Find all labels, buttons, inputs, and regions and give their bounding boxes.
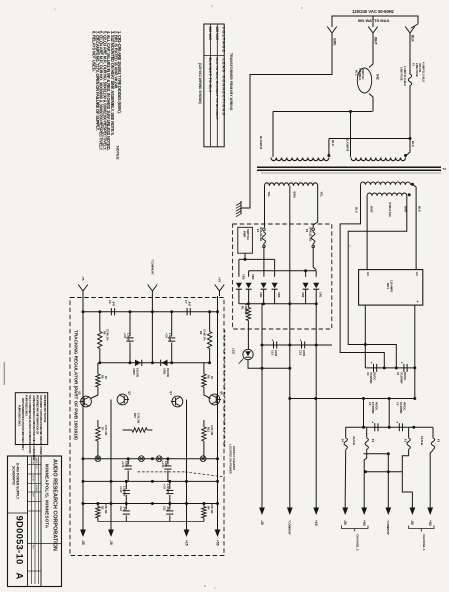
capacitor C12 (125, 504, 127, 510)
svg-text:CR2: CR2 (301, 292, 305, 298)
svg-text:40VDC: 40VDC (375, 402, 379, 410)
svg-text:GRN: GRN (333, 38, 337, 46)
wire primary top rail (273, 111, 372, 113)
wire diode cathode (274, 289, 276, 304)
svg-text:Q4: Q4 (169, 391, 173, 395)
wire AC bracket (332, 16, 418, 24)
wire output ch2 plus (364, 450, 367, 499)
wire right bus (217, 312, 219, 524)
transistor Q4 (172, 396, 183, 407)
transformer T1 trifilar winding row 1 (361, 182, 411, 185)
svg-text:"COMMON": "COMMON" (151, 259, 155, 276)
resistor R8 (99, 312, 101, 332)
svg-text:A: A (15, 573, 26, 580)
svg-text:3/4A,SL-BL: 3/4A,SL-BL (259, 227, 263, 242)
svg-text:CR11: CR11 (162, 368, 166, 375)
wire diode cathode (263, 289, 265, 304)
svg-text:TRANSFORMER PRIMARY WIRING: TRANSFORMER PRIMARY WIRING (229, 53, 233, 111)
diode CR1 (313, 283, 319, 289)
junction (151, 480, 154, 483)
terminal -75 in (78, 285, 83, 292)
LED DS1 (243, 349, 253, 359)
svg-text:4 AMP SLO-BLO: 4 AMP SLO-BLO (421, 62, 425, 82)
svg-text:CH. BY: CH. BY (32, 475, 34, 482)
title block (8, 456, 62, 587)
svg-text:R6: R6 (206, 375, 210, 379)
diode CR3 (272, 283, 278, 289)
svg-text:9D0053-10: 9D0053-10 (15, 516, 26, 565)
svg-text:27.4K 1%: 27.4K 1% (106, 329, 110, 341)
svg-text:PURPOSES ONLY.: PURPOSES ONLY. (18, 405, 22, 427)
resistor R9 (209, 312, 211, 332)
svg-text:.047: .047 (187, 301, 191, 307)
svg-text:BR1: BR1 (386, 283, 390, 289)
svg-text:.047: .047 (166, 506, 170, 512)
svg-text:.047: .047 (112, 301, 116, 307)
svg-text:SUPPLY CHASSIS: SUPPLY CHASSIS (232, 446, 236, 470)
terminal +75 in (215, 285, 220, 292)
svg-text:+15: +15 (314, 520, 318, 526)
terminal +55 out (217, 504, 219, 530)
capacitor C2 (373, 364, 375, 372)
svg-text:THIS PRINT CONTAINS PATENTED A: THIS PRINT CONTAINS PATENTED AND/OR OTHE… (39, 395, 43, 455)
transformer T1 primary winding 1 (271, 158, 329, 161)
svg-text:-50: -50 (410, 520, 414, 525)
wire bottom tie rail (98, 521, 204, 523)
svg-text:+C14: +C14 (161, 461, 165, 468)
chassis ground (240, 201, 242, 214)
terminal -50 channel 2 (344, 499, 346, 508)
lamp DS4 (156, 456, 162, 462)
svg-text:(120 VAC WIRING SHOWN): (120 VAC WIRING SHOWN) (198, 63, 202, 104)
junction (129, 361, 132, 364)
capacitor C7 (186, 308, 188, 315)
svg-text:BLU TO BLK, BLK/WHT TO BLU/WHT: BLU TO BLK, BLK/WHT TO BLU/WHT (215, 58, 219, 120)
svg-text:Q5: Q5 (78, 391, 82, 395)
junction (288, 302, 291, 305)
svg-text:LED: LED (232, 348, 236, 355)
wire diode bottom rail (239, 303, 316, 305)
svg-text:PURPOSES ONLY.: PURPOSES ONLY. (25, 395, 29, 417)
fuse F6 (312, 228, 315, 231)
svg-text:CHANNEL 1: CHANNEL 1 (422, 534, 426, 551)
svg-text:1.0/100V: 1.0/100V (166, 484, 170, 495)
wire regulator mid rail (100, 362, 210, 364)
svg-text:PROPRIETARY NOTICE: PROPRIETARY NOTICE (43, 395, 47, 423)
resistor R5 (97, 363, 99, 374)
svg-text:LEAD CONNECTIONS: LEAD CONNECTIONS (222, 59, 226, 117)
svg-text:-15: -15 (260, 520, 264, 525)
svg-text:S42: S42 (376, 74, 380, 80)
terminal +15 (315, 499, 317, 508)
svg-text:50VDC: 50VDC (403, 372, 407, 380)
junction (364, 470, 367, 473)
junction (315, 344, 318, 347)
fuse F4 output (345, 427, 347, 437)
wire output ch1 plus (430, 450, 433, 499)
svg-text:110 AMP1: 110 AMP1 (390, 280, 394, 293)
box power switch (238, 227, 253, 253)
svg-text:+15: +15 (185, 540, 189, 546)
junction (151, 502, 154, 505)
svg-text:BLU: BLU (331, 140, 335, 146)
wire diode cathode (238, 289, 240, 304)
svg-text:70,000MF: 70,000MF (369, 372, 373, 384)
zener CR11 (162, 360, 168, 366)
junction (388, 397, 391, 400)
svg-text:Q6: Q6 (220, 391, 224, 395)
capacitor C10 (125, 481, 127, 489)
svg-text:DR. BY: DR. BY (32, 458, 34, 465)
svg-text:4A,S.B.: 4A,S.B. (352, 436, 356, 446)
resistor R1 (247, 304, 249, 308)
wire diode rail 1 (239, 258, 275, 260)
svg-text:120 VAC: 120 VAC (215, 27, 219, 41)
svg-text:CR5: CR5 (251, 274, 255, 280)
svg-text:15V,1W: 15V,1W (166, 368, 170, 378)
svg-text:+: + (396, 420, 398, 424)
svg-text:-15: -15 (109, 540, 113, 545)
svg-text:C4: C4 (396, 402, 400, 406)
svg-text:+: + (417, 300, 419, 304)
dashed callout from rectifier box (224, 330, 226, 447)
zener CR10 (135, 360, 141, 366)
svg-text:BLK/WHT TO BLU: BLK/WHT TO BLU (208, 58, 212, 93)
wire jog output ch1 (402, 450, 412, 499)
svg-text:CR4: CR4 (259, 292, 263, 298)
svg-text:+75: +75 (218, 277, 222, 283)
svg-text:1K: 1K (104, 376, 108, 379)
wire power switch stub (244, 253, 246, 259)
svg-text:C15: C15 (271, 350, 275, 356)
junction phase dot (411, 183, 414, 186)
svg-text:CHANNEL 2: CHANNEL 2 (355, 534, 359, 551)
junction (216, 502, 219, 505)
svg-text:C3: C3 (368, 402, 372, 406)
svg-text:R5: R5 (100, 375, 104, 379)
svg-text:AUDIO RESEARCH CORPORATION: AUDIO RESEARCH CORPORATION (52, 459, 58, 551)
junction (404, 154, 407, 157)
svg-text:Q3: Q3 (128, 391, 132, 395)
svg-text:NOTES:: NOTES: (116, 146, 120, 160)
junction (388, 426, 391, 429)
wire cap rail 1 (365, 367, 415, 369)
svg-text:F1: F1 (403, 439, 407, 443)
transistor Q6 (209, 394, 220, 405)
svg-text:TRACKING REGULATOR (PART OF PW: TRACKING REGULATOR (PART OF PWB 1901616) (74, 330, 79, 440)
capacitor C4 (398, 423, 400, 431)
svg-text:C12: C12 (119, 506, 123, 511)
wire GRN to chassis ground (241, 33, 332, 208)
svg-text:+: + (272, 339, 274, 343)
junction (98, 361, 101, 364)
svg-text:C11: C11 (163, 506, 167, 511)
junction (383, 366, 386, 369)
transformer T1 trifilar winding row 2 (367, 193, 407, 196)
svg-text:120/240 VAC 50-60Hz: 120/240 VAC 50-60Hz (352, 9, 394, 14)
wire BRN center tap (289, 186, 291, 499)
transistor Q5 (81, 396, 92, 407)
wire YEL right lead (313, 186, 318, 228)
wire BLK/WHT lead (350, 112, 352, 158)
junction (261, 367, 264, 370)
terminal +15 out (186, 504, 188, 530)
svg-text:SCHEMATIC: SCHEMATIC (12, 466, 16, 486)
wire YEL left lead (264, 186, 266, 228)
terminal -15 (261, 499, 263, 508)
svg-text:15V,1W: 15V,1W (136, 368, 140, 378)
wire diode cathode (315, 289, 317, 304)
svg-text:BLK: BLK (417, 206, 421, 213)
resistor R6 (203, 363, 205, 374)
svg-text:CR3: CR3 (277, 292, 281, 298)
svg-text:BLK/WHT: BLK/WHT (346, 138, 350, 152)
bridge rectifier BR1 (359, 270, 423, 306)
wire BR1 plus output (414, 305, 416, 398)
fuse F2 output (432, 427, 434, 437)
svg-text:1.5/16V: 1.5/16V (126, 333, 130, 342)
wire +15 bus (315, 304, 317, 499)
svg-text:47K 1W: 47K 1W (210, 504, 214, 514)
capacitor C13 (127, 459, 129, 465)
resistor R7 (97, 420, 99, 427)
svg-text:C7: C7 (184, 300, 188, 304)
junction (216, 480, 219, 483)
capacitor C14 (167, 459, 169, 465)
lamp DS3 (139, 456, 145, 462)
junction (82, 502, 85, 505)
capacitor C8 (129, 312, 131, 337)
svg-text:R9: R9 (199, 331, 203, 335)
capacitor C15 (273, 341, 275, 348)
terminal -15 out (110, 504, 112, 530)
junction (349, 110, 352, 113)
svg-text:.047: .047 (123, 506, 127, 512)
svg-text:+: + (401, 361, 403, 365)
wire lamp rail (83, 458, 218, 460)
svg-text:40VDC: 40VDC (402, 402, 406, 410)
svg-text:T1: T1 (443, 167, 447, 171)
junction (395, 366, 398, 369)
junction (409, 137, 412, 140)
svg-text:WATSON/IDENTIFICATION PURPOSES: WATSON/IDENTIFICATION PURPOSES ONLY. (21, 398, 25, 451)
wire left bus (82, 312, 84, 524)
svg-text:1.0/100V: 1.0/100V (123, 486, 127, 497)
capacitor C16 (301, 341, 303, 348)
wire output ch2 minus (344, 450, 347, 499)
resistor R10 (132, 428, 147, 432)
svg-text:2.7K,1W: 2.7K,1W (136, 413, 140, 424)
junction (110, 502, 113, 505)
diode CR2 (303, 283, 309, 289)
svg-text:VOLTAGE: VOLTAGE (222, 27, 226, 54)
svg-text:C6: C6 (108, 300, 112, 304)
svg-text:CR6: CR6 (241, 274, 245, 280)
junction (288, 344, 291, 347)
thermal switch S42 (357, 68, 371, 93)
fuse F4 (263, 228, 266, 231)
svg-text:+50: +50 (428, 520, 432, 526)
wire diode rail 2 (249, 270, 317, 272)
junction (413, 366, 416, 369)
svg-text:1.5/16V: 1.5/16V (168, 333, 172, 342)
wire cap rail 2 (346, 426, 433, 428)
capacitor C1 (403, 364, 405, 372)
lamp DS2 (95, 456, 101, 462)
dashed box tracking regulator (70, 298, 224, 556)
terminal COMMON right (387, 499, 389, 508)
svg-text:MINNEAPOLIS, MINNESOTA: MINNEAPOLIS, MINNESOTA (45, 464, 50, 528)
svg-text:"COMMON": "COMMON" (386, 520, 390, 536)
terminal COMMON in (148, 285, 153, 292)
wire diode cathode (248, 289, 250, 304)
diode CR6 (236, 283, 242, 289)
transformer T1 secondary winding left (265, 183, 318, 186)
wire WHT lead down (369, 33, 373, 68)
svg-text:CR10: CR10 (132, 368, 136, 375)
junction (151, 457, 154, 460)
svg-text:SWITCH: SWITCH (361, 69, 365, 79)
terminal -55 out (82, 504, 84, 530)
wire Q4 emitter bus (186, 400, 188, 525)
svg-text:R1: R1 (240, 306, 244, 310)
scan artifact left edge (3, 362, 5, 385)
svg-text:2 AMP SLO-BLO: 2 AMP SLO-BLO (403, 66, 407, 86)
connector GRN lead (327, 27, 332, 34)
terminal +50 channel 1 (429, 499, 431, 508)
junction (387, 452, 390, 455)
junction (364, 343, 367, 346)
wire cap rail 2 mid stub (388, 399, 390, 428)
connector BLK lead (405, 27, 410, 34)
svg-text:R10: R10 (133, 413, 137, 418)
svg-text:WHT: WHT (374, 37, 378, 45)
capacitor C9b (169, 481, 171, 489)
svg-text:BLK: BLK (354, 207, 358, 214)
svg-text:+: + (371, 361, 373, 365)
junction (82, 457, 85, 460)
svg-text:F4: F4 (256, 229, 260, 233)
fuse F1 output (408, 427, 410, 437)
wire regulator bottom rail (83, 503, 218, 505)
svg-text:+50: +50 (362, 520, 366, 526)
svg-text:R7: R7 (100, 427, 104, 431)
svg-text:27.4K 1%: 27.4K 1% (203, 329, 207, 341)
svg-text:+C9: +C9 (165, 333, 169, 338)
svg-text:C2: C2 (366, 372, 370, 376)
diode CR5 (246, 283, 252, 289)
junction (262, 302, 265, 305)
junction (185, 480, 188, 483)
title block grid (30, 457, 32, 584)
svg-text:10,000MF: 10,000MF (399, 402, 403, 414)
terminal +50 channel 2 (363, 499, 365, 508)
svg-text:YEL: YEL (267, 192, 271, 198)
fuse F1 (409, 33, 411, 74)
wire BLK link rail (329, 138, 410, 140)
wire trifilar BLK right to BR1 (412, 184, 416, 269)
svg-text:ON A CONFIDENTIAL BASIS FOR ID: ON A CONFIDENTIAL BASIS FOR IDENTIFICATI… (28, 395, 32, 454)
svg-text:SWITCH: SWITCH (246, 229, 250, 240)
svg-text:YEL: YEL (319, 192, 323, 198)
wire filter rail (262, 344, 332, 346)
svg-text:500 WATTS MAX.: 500 WATTS MAX. (358, 18, 391, 23)
svg-text:10,000MF: 10,000MF (371, 402, 375, 414)
dashed callout to chassis note (138, 471, 185, 473)
fuse F3 output (366, 427, 368, 437)
junction (412, 426, 415, 429)
junction (314, 397, 317, 400)
box proprietary notice (15, 393, 47, 445)
svg-text:1.8R,2W: 1.8R,2W (244, 304, 248, 315)
svg-text:1000: 1000 (302, 350, 306, 357)
junction (327, 154, 330, 157)
svg-text:50VDC: 50VDC (373, 372, 377, 380)
transformer T1 primary winding 2 (351, 158, 406, 161)
wire trifilar BLK left (340, 185, 384, 368)
svg-text:(TRIFILAR): (TRIFILAR) (388, 202, 392, 217)
table transformer primary wiring (204, 24, 224, 147)
svg-text:-75: -75 (81, 276, 85, 281)
resistor R12 (203, 420, 205, 427)
junction (151, 310, 154, 313)
junction (151, 361, 154, 364)
wire F6 to rail 2 (313, 247, 316, 271)
svg-text:240 VAC: 240 VAC (208, 27, 212, 41)
junction (247, 302, 250, 305)
svg-text:+C8: +C8 (123, 333, 127, 338)
resistor R4 (203, 504, 205, 507)
svg-text:-50: -50 (343, 520, 347, 525)
terminal COMMON (289, 499, 291, 508)
junction (362, 397, 365, 400)
junction (208, 361, 211, 364)
svg-text:"COMMON": "COMMON" (288, 520, 292, 536)
scan speckles (211, 5, 212, 6)
transformer T1 core (257, 166, 441, 168)
junction (185, 502, 188, 505)
svg-text:SCALE: SCALE (35, 485, 38, 492)
svg-text:-55: -55 (81, 540, 85, 545)
brace channel 1 (409, 526, 434, 529)
svg-text:+: + (300, 339, 302, 343)
capacitor C6 (110, 308, 112, 315)
svg-text:BRN: BRN (293, 192, 297, 198)
wire cap rail 2 left stub (363, 399, 365, 428)
svg-text:4.7K 1W: 4.7K 1W (210, 425, 214, 436)
svg-text:BLK: BLK (411, 141, 415, 148)
svg-text:70,000MF: 70,000MF (400, 372, 404, 384)
svg-text:WHT: WHT (370, 206, 374, 213)
wire F4 to CR4 (263, 247, 265, 277)
svg-text:4.7K 1W: 4.7K 1W (104, 425, 108, 436)
lamp DS5 (200, 456, 206, 462)
junction (216, 457, 219, 460)
resistor R3 (97, 504, 99, 507)
transistor Q3 (117, 394, 128, 405)
wire -15 bus (261, 304, 263, 499)
svg-text:+C10: +C10 (119, 486, 123, 493)
svg-text:1500: 1500 (125, 461, 129, 467)
svg-text:8. RELAYS NOT USED.: 8. RELAYS NOT USED. (91, 31, 96, 71)
svg-text:AUDIO RESEARCH CORPORATION AND: AUDIO RESEARCH CORPORATION AND IS FURNIS… (32, 395, 36, 460)
junction (261, 344, 264, 347)
junction (82, 480, 85, 483)
junction (288, 397, 291, 400)
svg-text:R12: R12 (206, 427, 210, 432)
diode CR4 (261, 283, 267, 289)
svg-text:C16: C16 (299, 350, 303, 356)
